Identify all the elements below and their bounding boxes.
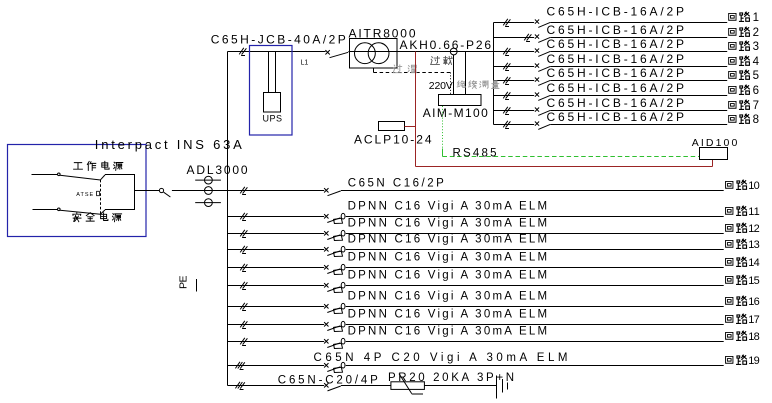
svg-text:1: 1 bbox=[753, 12, 759, 24]
svg-text:RS485: RS485 bbox=[453, 147, 497, 159]
svg-text:ADL3000: ADL3000 bbox=[187, 163, 248, 177]
svg-text:13: 13 bbox=[748, 239, 760, 251]
svg-text:L1: L1 bbox=[301, 60, 309, 67]
svg-text:4: 4 bbox=[753, 56, 760, 68]
svg-text:C65H-ICB-16A/2P: C65H-ICB-16A/2P bbox=[547, 66, 685, 80]
svg-text:16: 16 bbox=[748, 296, 760, 308]
svg-text:17: 17 bbox=[748, 314, 760, 326]
svg-text:3: 3 bbox=[753, 41, 759, 53]
svg-text:AID100: AID100 bbox=[692, 137, 738, 149]
svg-text:C65H-ICB-16A/2P: C65H-ICB-16A/2P bbox=[547, 52, 685, 66]
svg-text:2: 2 bbox=[753, 27, 759, 39]
svg-text:AIM-M100: AIM-M100 bbox=[423, 106, 488, 120]
svg-text:220V: 220V bbox=[429, 80, 453, 92]
svg-text:C65H-ICB-16A/2P: C65H-ICB-16A/2P bbox=[547, 81, 685, 95]
svg-text:6: 6 bbox=[753, 85, 759, 97]
svg-text:11: 11 bbox=[748, 206, 760, 218]
svg-text:C65H-ICB-16A/2P: C65H-ICB-16A/2P bbox=[547, 96, 685, 110]
svg-text:UPS: UPS bbox=[263, 114, 283, 124]
svg-text:C65N 4P C20 Vigi A 30mA ELM: C65N 4P C20 Vigi A 30mA ELM bbox=[314, 352, 568, 364]
svg-text:5: 5 bbox=[753, 70, 759, 82]
svg-text:7: 7 bbox=[753, 100, 759, 112]
svg-text:ACLP10-24: ACLP10-24 bbox=[354, 132, 432, 146]
svg-text:14: 14 bbox=[748, 257, 760, 269]
svg-text:ATSE: ATSE bbox=[76, 192, 93, 198]
svg-text:C65H-ICB-16A/2P: C65H-ICB-16A/2P bbox=[547, 37, 685, 51]
svg-text:19: 19 bbox=[748, 355, 760, 367]
svg-text:12: 12 bbox=[748, 223, 760, 235]
svg-text:C65H-ICB-16A/2P: C65H-ICB-16A/2P bbox=[547, 23, 685, 37]
svg-text:C65H-ICB-16A/2P: C65H-ICB-16A/2P bbox=[547, 110, 685, 124]
svg-text:C65H-ICB-16A/2P: C65H-ICB-16A/2P bbox=[547, 5, 685, 19]
svg-text:18: 18 bbox=[748, 331, 760, 343]
svg-text:C65N C16/2P: C65N C16/2P bbox=[348, 177, 444, 189]
svg-text:C65H-JCB-40A/2P: C65H-JCB-40A/2P bbox=[211, 32, 346, 46]
svg-text:PE: PE bbox=[178, 276, 190, 290]
svg-text:8: 8 bbox=[753, 114, 759, 126]
svg-text:AKH0.66-P26: AKH0.66-P26 bbox=[400, 38, 492, 52]
svg-text:15: 15 bbox=[748, 275, 760, 287]
svg-text:C65N-C20/4P: C65N-C20/4P bbox=[278, 374, 378, 386]
svg-text:10: 10 bbox=[748, 180, 760, 192]
